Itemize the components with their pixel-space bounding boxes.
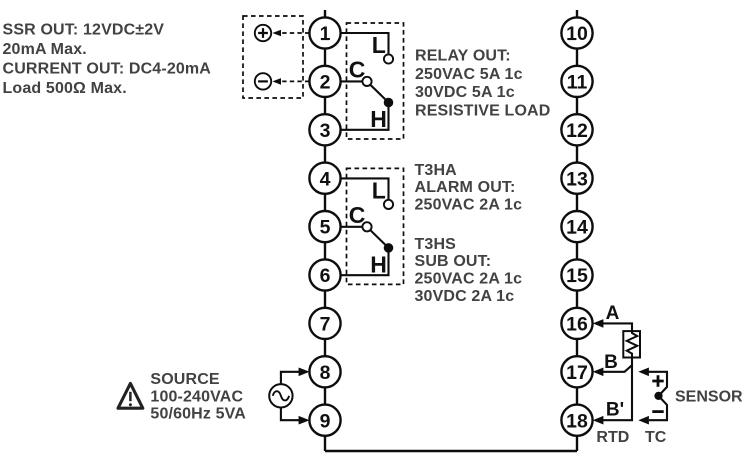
svg-text:4: 4 (320, 168, 331, 190)
wire TC upper arrow (638, 368, 667, 421)
contact L open circle (relay out) (384, 54, 393, 63)
terminal 15 (561, 259, 592, 290)
svg-text:250VAC 2A 1c: 250VAC 2A 1c (415, 271, 523, 288)
terminal 17 (561, 356, 592, 387)
relay relay out dashed box (347, 23, 404, 139)
svg-text:B: B (604, 352, 618, 373)
terminal 14 (561, 211, 592, 242)
svg-text:ALARM OUT:: ALARM OUT: (415, 179, 516, 196)
svg-text:Load 500Ω Max.: Load 500Ω Max. (3, 80, 127, 97)
wire left terminal bus (terminals 1-9) (324, 10, 326, 451)
contact H filled dot (relay out) (384, 98, 394, 108)
terminal 10 (561, 17, 592, 48)
wire C branch (alarm/sub out) (341, 226, 363, 228)
switch blade C to H (relay out) (370, 85, 388, 103)
wire C branch (relay out) (341, 80, 363, 82)
svg-text:6: 6 (320, 265, 331, 287)
pole C open circle (relay out) (362, 77, 371, 86)
wire A arrow into terminal 16 (593, 319, 632, 331)
terminal 13 (561, 163, 592, 194)
svg-text:1: 1 (320, 23, 331, 45)
wire TC lower arrow (638, 416, 649, 425)
warning triangle (118, 383, 143, 408)
wire B arrow into terminal 17 (593, 365, 632, 376)
svg-text:50/60Hz 5VA: 50/60Hz 5VA (150, 405, 246, 422)
svg-text:7: 7 (320, 314, 331, 336)
AC source G1 (269, 384, 292, 407)
svg-text:3: 3 (320, 120, 331, 142)
wire L branch (relay out) (341, 33, 389, 54)
wire bottom link terminal 9 to terminal 18 (325, 450, 577, 452)
svg-text:SUB OUT:: SUB OUT: (415, 253, 492, 270)
wire RTD vertical to B-prime (631, 358, 633, 421)
svg-text:30VDC 2A 1c: 30VDC 2A 1c (415, 288, 515, 305)
contact L open circle (alarm/sub out) (384, 200, 393, 209)
terminal 8 (309, 356, 340, 387)
node - (SSR/current out negative) (255, 73, 271, 89)
terminal 11 (561, 66, 592, 97)
svg-text:B': B' (606, 400, 624, 421)
label - sensor polarity (652, 410, 663, 413)
svg-text:250VAC 5A 1c: 250VAC 5A 1c (415, 66, 523, 83)
wire H branch (alarm/sub out) (341, 252, 389, 275)
svg-text:12: 12 (566, 120, 588, 142)
svg-text:10: 10 (566, 23, 588, 45)
svg-text:SENSOR: SENSOR (675, 389, 743, 406)
svg-text:SSR OUT: 12VDC±2V: SSR OUT: 12VDC±2V (3, 21, 165, 38)
svg-text:RESISTIVE LOAD: RESISTIVE LOAD (415, 102, 550, 119)
svg-text:250VAC 2A 1c: 250VAC 2A 1c (415, 197, 523, 214)
svg-text:RELAY OUT:: RELAY OUT: (415, 48, 511, 65)
svg-text:H: H (370, 252, 387, 278)
svg-text:L: L (372, 178, 386, 204)
terminal 4 (309, 163, 340, 194)
terminal 16 (561, 308, 592, 339)
svg-text:A: A (606, 303, 620, 324)
wire AC source to terminal 8 (281, 368, 310, 385)
svg-text:18: 18 (566, 410, 588, 432)
svg-text:8: 8 (320, 362, 331, 384)
svg-text:C: C (349, 56, 366, 82)
svg-text:30VDC 5A 1c: 30VDC 5A 1c (415, 84, 515, 101)
label + sensor polarity (652, 375, 663, 386)
svg-text:13: 13 (566, 168, 588, 190)
svg-text:9: 9 (320, 410, 331, 432)
svg-text:16: 16 (566, 314, 588, 336)
terminal 5 (309, 211, 340, 242)
node + (SSR/current out positive) (255, 25, 271, 41)
terminal 18 (561, 405, 592, 436)
wire AC source to terminal 9 (281, 408, 310, 425)
contact H filled dot (alarm/sub out) (384, 243, 394, 253)
terminal 2 (309, 66, 340, 97)
svg-text:2: 2 (320, 72, 331, 94)
svg-text:CURRENT OUT: DC4-20mA: CURRENT OUT: DC4-20mA (3, 60, 212, 77)
wire H branch (relay out) (341, 107, 389, 130)
svg-text:15: 15 (566, 265, 588, 287)
terminal 6 (309, 259, 340, 290)
svg-text:100-240VAC: 100-240VAC (150, 388, 243, 405)
switch blade C to H (alarm/sub out) (370, 230, 388, 248)
svg-text:T3HS: T3HS (415, 236, 457, 253)
resistor RTD element (623, 331, 640, 357)
terminal 12 (561, 114, 592, 145)
svg-text:RTD: RTD (596, 429, 629, 446)
svg-text:SOURCE: SOURCE (150, 371, 220, 388)
svg-text:L: L (372, 32, 386, 58)
terminal 1 (309, 17, 340, 48)
svg-text:20mA Max.: 20mA Max. (3, 41, 87, 58)
svg-text:TC: TC (645, 429, 667, 446)
terminal 9 (309, 405, 340, 436)
svg-text:H: H (370, 106, 387, 132)
SSR/current output dashed box (243, 16, 303, 98)
svg-text:5: 5 (320, 217, 331, 239)
svg-text:17: 17 (566, 362, 588, 384)
wire L branch (alarm/sub out) (341, 178, 389, 199)
svg-text:14: 14 (566, 217, 588, 239)
svg-text:11: 11 (567, 72, 588, 94)
pole C open circle (alarm/sub out) (362, 222, 371, 231)
svg-text:C: C (349, 202, 366, 228)
wire B-prime arrow into terminal 18 (593, 416, 633, 425)
terminal 3 (309, 114, 340, 145)
junction dot sensor (654, 392, 662, 400)
wire right terminal bus (terminals 10-18) (576, 10, 578, 451)
svg-text:T3HA: T3HA (415, 162, 458, 179)
wire dashed arrow terminal 2 to - (272, 78, 309, 85)
wire dashed arrow terminal 1 to + (272, 30, 309, 37)
relay alarm/sub out dashed box (347, 168, 404, 284)
terminal 7 (309, 308, 340, 339)
